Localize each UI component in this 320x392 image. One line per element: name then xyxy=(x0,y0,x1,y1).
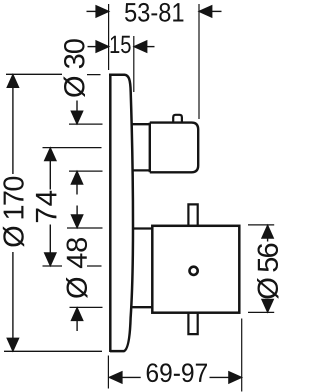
handle index tab xyxy=(173,115,182,122)
dimension Ø48 xyxy=(67,206,103,332)
dimension 53-81 xyxy=(87,6,222,17)
escutcheon plate (side profile, Ø170) xyxy=(109,75,133,352)
extension line plate back face xyxy=(133,36,135,92)
dimension Ø30 xyxy=(69,101,103,195)
dimension Ø56 xyxy=(248,225,274,313)
valve body top stub xyxy=(188,204,197,225)
label 15 xyxy=(111,36,131,54)
valve flange between plate and body (Ø48) xyxy=(133,229,153,308)
label Ø170 xyxy=(3,177,24,247)
extension line plate front face xyxy=(108,4,110,70)
label Ø56 xyxy=(257,244,279,299)
label Ø48 xyxy=(66,238,88,298)
extension line 69-97 left xyxy=(107,356,109,389)
dimension 69-97 xyxy=(109,372,241,383)
label 69-97 xyxy=(147,363,207,382)
thermostat handle stem xyxy=(131,124,150,170)
label Ø30 xyxy=(64,39,86,97)
dimension 15 xyxy=(88,41,155,52)
thermostat handle body (Ø30) xyxy=(150,123,198,173)
valve body (square, Ø56) xyxy=(152,226,239,313)
center screw xyxy=(190,267,198,275)
label 74 xyxy=(36,191,57,222)
dimension Ø170 xyxy=(4,74,102,351)
label 53-81 xyxy=(125,3,183,22)
wall reference extension line xyxy=(198,4,200,119)
dimension 74 xyxy=(43,148,102,266)
extension line 69-97 right xyxy=(241,319,243,392)
valve body bottom stub xyxy=(188,314,197,335)
